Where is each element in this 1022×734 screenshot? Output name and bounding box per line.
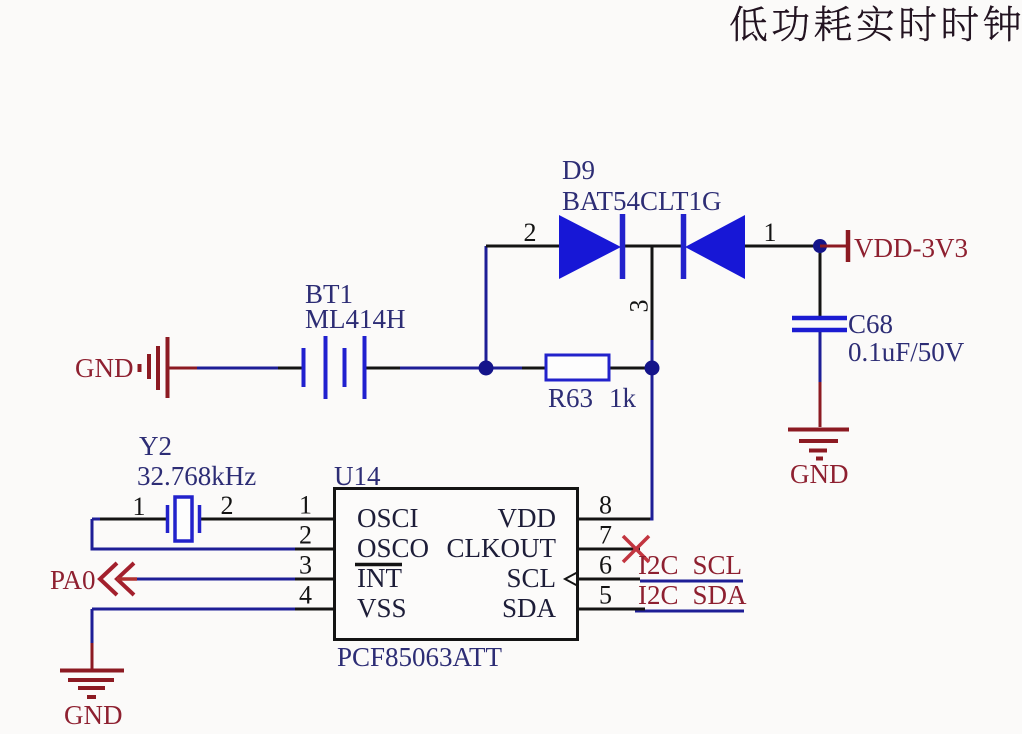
svg-text:8: 8 [599,491,612,520]
svg-text:32.768kHz: 32.768kHz [137,461,256,491]
svg-text:5: 5 [599,581,612,610]
svg-text:OSCI: OSCI [357,503,419,533]
svg-text:0.1uF/50V: 0.1uF/50V [848,337,965,367]
svg-text:ML414H: ML414H [305,304,406,334]
svg-text:PCF85063ATT: PCF85063ATT [337,642,503,672]
svg-text:1: 1 [299,491,312,520]
svg-text:INT: INT [357,563,402,593]
svg-text:1: 1 [764,218,777,247]
svg-text:GND: GND [75,353,134,383]
svg-text:7: 7 [599,521,612,550]
svg-text:U14: U14 [334,461,381,491]
svg-text:VDD-3V3: VDD-3V3 [854,233,968,263]
svg-text:2: 2 [524,218,537,247]
svg-text:SDA: SDA [502,593,557,623]
svg-text:2: 2 [221,491,234,520]
svg-text:3: 3 [299,551,312,580]
svg-text:R63: R63 [548,383,593,413]
svg-text:VDD: VDD [498,503,557,533]
svg-text:I2CSDA: I2CSDA [638,580,747,610]
svg-text:D9: D9 [562,155,595,185]
svg-text:3: 3 [625,300,654,313]
svg-text:4: 4 [299,581,312,610]
svg-text:PA0: PA0 [50,565,96,595]
svg-text:SCL: SCL [506,563,556,593]
svg-text:BAT54CLT1G: BAT54CLT1G [562,186,722,216]
svg-text:GND: GND [790,459,849,489]
svg-text:1: 1 [133,492,146,521]
svg-text:C68: C68 [848,309,893,339]
svg-text:1k: 1k [609,383,637,413]
svg-text:OSCO: OSCO [357,533,429,563]
svg-text:GND: GND [64,700,123,730]
svg-text:VSS: VSS [357,593,407,623]
svg-text:6: 6 [599,551,612,580]
svg-text:Y2: Y2 [139,431,172,461]
svg-text:2: 2 [299,521,312,550]
svg-text:CLKOUT: CLKOUT [447,533,557,563]
